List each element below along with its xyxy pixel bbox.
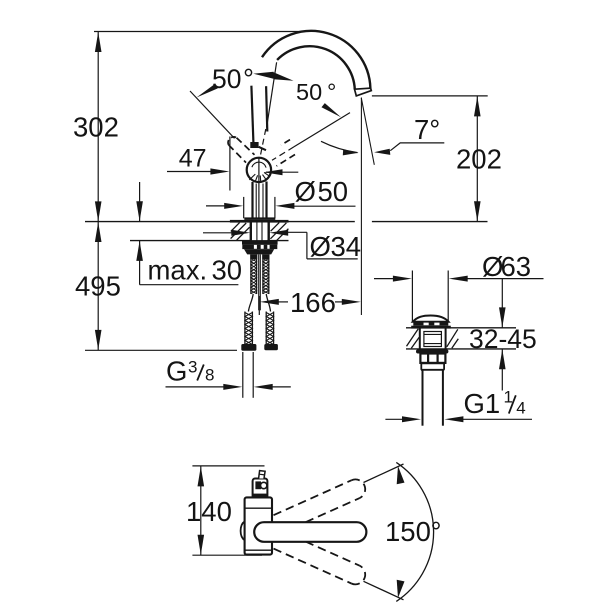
- plan solid spout capsule: [254, 522, 366, 542]
- lever collar: [250, 142, 258, 148]
- dim 495 vertical: [85, 222, 237, 351]
- supply hose left lower: [245, 312, 253, 345]
- fraction slash G3/8: [197, 365, 204, 381]
- plan swing extension lines: [364, 464, 404, 483]
- dim D50 extension lines: [243, 197, 245, 218]
- deck hatch left: [231, 223, 250, 241]
- svg-text:63: 63: [501, 251, 532, 282]
- mounting washer: [242, 241, 278, 245]
- svg-text:4: 4: [516, 399, 525, 418]
- drain push cap lens dome: [413, 316, 449, 322]
- svg-text:140: 140: [186, 496, 232, 527]
- right 50deg leader line: [294, 113, 350, 147]
- spout inner arc: [277, 46, 355, 89]
- drain locknut flange bar: [416, 349, 448, 353]
- svg-text:495: 495: [75, 271, 121, 302]
- svg-text:202: 202: [456, 144, 502, 175]
- plan dashed spout upper: [274, 479, 366, 522]
- spout outlet cap: [355, 88, 372, 96]
- hose curve right: [266, 294, 270, 312]
- svg-text:°: °: [243, 63, 254, 94]
- dim 140: [192, 466, 264, 555]
- pivot leader arrow: [266, 171, 298, 173]
- lever handle edges: [251, 86, 253, 145]
- drain thread section: [420, 363, 422, 370]
- drain locknut body: [420, 354, 445, 363]
- faucet centerline: [258, 158, 260, 219]
- dim 166: [259, 296, 343, 315]
- svg-text:°: °: [327, 79, 336, 105]
- hose connector left: [241, 344, 256, 351]
- lever centerline dashed: [260, 129, 266, 157]
- plan body: [245, 497, 272, 554]
- plan lever flag: [259, 471, 266, 479]
- svg-text:1: 1: [504, 388, 513, 407]
- svg-text:50: 50: [212, 64, 241, 94]
- svg-text:8: 8: [205, 366, 214, 385]
- shank through deck: [252, 223, 267, 241]
- wire top reference line: [94, 31, 303, 33]
- svg-text:Ø: Ø: [295, 176, 316, 207]
- svg-text:50: 50: [296, 79, 322, 105]
- svg-text:166: 166: [290, 287, 336, 318]
- drain flange: [411, 326, 451, 329]
- supply hose left upper: [251, 254, 257, 294]
- dim 32-45 vertical: [501, 279, 503, 328]
- left lever dashed outline: [228, 137, 236, 145]
- knurled nut: [242, 245, 277, 250]
- drain deck lines: [406, 327, 516, 329]
- right lever dashed outline: [272, 147, 294, 161]
- dim 47 leader: [167, 137, 230, 191]
- svg-text:50: 50: [318, 176, 349, 207]
- deck hatch right: [270, 223, 288, 241]
- dim G1 1/4: [385, 418, 532, 420]
- fraction slash G1 1/4: [509, 395, 516, 413]
- outlet centerline: [360, 98, 362, 316]
- base flange: [244, 217, 275, 220]
- dim D63: [374, 271, 544, 323]
- plan dashed spout lower: [274, 542, 366, 585]
- supply hose right upper: [263, 254, 269, 294]
- 150deg arc: [396, 462, 433, 601]
- pivot circle: [247, 158, 271, 182]
- hose curve left: [248, 294, 253, 312]
- riser body edges: [251, 182, 253, 219]
- plan lever knob: [253, 479, 268, 498]
- spout outer arc: [262, 31, 370, 89]
- svg-text:150: 150: [385, 516, 431, 547]
- svg-text:max.: max.: [148, 255, 208, 286]
- drain body through deck: [419, 328, 421, 351]
- dim 202: [372, 96, 488, 222]
- dim G3/8: [166, 352, 291, 398]
- svg-text:G1: G1: [464, 388, 501, 419]
- svg-text:32-45: 32-45: [469, 324, 537, 354]
- plan body left bulge: [241, 521, 245, 540]
- svg-text:°: °: [431, 516, 442, 547]
- angle 50 arrows bowtie at lever top: [253, 72, 273, 79]
- svg-text:34: 34: [331, 231, 362, 262]
- drain tailpipe: [422, 370, 424, 426]
- dim 302 vertical: [97, 32, 99, 222]
- dim max30: [140, 182, 239, 285]
- deck bottom line: [130, 240, 289, 242]
- svg-text:30: 30: [212, 255, 243, 286]
- svg-text:3: 3: [188, 358, 197, 377]
- deck top line: [85, 221, 355, 223]
- svg-text:302: 302: [73, 112, 119, 143]
- outlet 7deg tilted line: [361, 98, 374, 165]
- dim D34 bent leader: [203, 232, 358, 259]
- svg-text:Ø: Ø: [310, 231, 331, 262]
- svg-text:47: 47: [179, 145, 207, 173]
- supply hose right lower: [266, 312, 273, 345]
- drain deck hatch: [407, 329, 459, 349]
- cone under nut: [244, 249, 274, 254]
- svg-text:7°: 7°: [414, 114, 440, 145]
- left 50deg leader line: [190, 91, 235, 138]
- lever centerline solid: [267, 62, 277, 127]
- drain cap skirt: [413, 322, 448, 326]
- svg-text:G: G: [166, 356, 187, 387]
- pop-up rod: [258, 254, 260, 310]
- 7deg arc: [321, 141, 358, 152]
- hose connector right: [264, 344, 278, 350]
- dim D50 arrows: [206, 205, 226, 207]
